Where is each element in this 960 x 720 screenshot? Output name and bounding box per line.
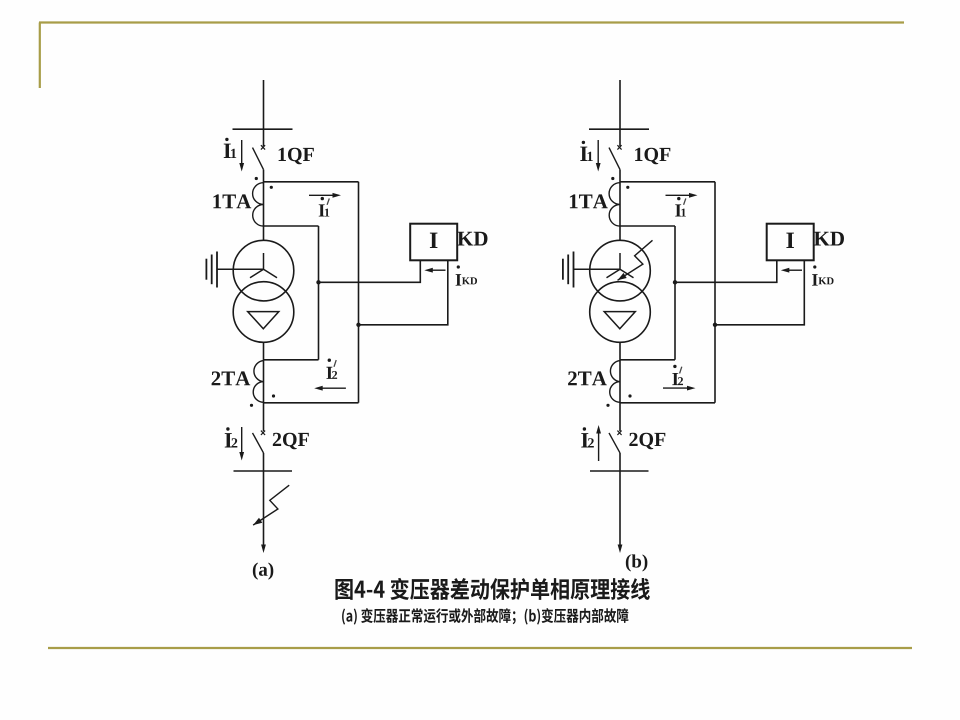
arrow: I2' secondary current (left) circuit (a) [320,387,346,389]
wire: right vertical secondary bus circuit (a) [358,182,360,403]
wire: breaker 2QF to load bus circuit (b) [619,453,621,471]
polarity dot 1TA lower circuit (b) [626,186,629,189]
internal fault lightning bolt inside transformer circuit (b) [618,240,653,280]
CT 2TA winding bumps circuit (a) [253,361,263,403]
breaker 1QF top contact mark circuit (a) [261,145,265,149]
wire: outgoing feeder with direction arrow circuit (b) [619,471,621,547]
wire: incoming feeder line circuit (a) [263,80,265,146]
wire: breaker to transformer circuit (a) [263,170,265,241]
polarity dot 1TA upper circuit (a) [255,177,258,180]
wire: 2TA secondary lower lead circuit (a) [264,402,359,404]
arrow: I1 current direction (down) circuit (b) [597,140,599,166]
slide frame: gold bottom horizontal rule [48,647,912,649]
wye (star) symbol circuit (b) [607,253,634,278]
label I2 load current circuit (b) [581,433,588,447]
polarity dot 2TA lower circuit (a) [250,404,253,407]
polarity dot 1TA lower circuit (a) [270,186,273,189]
wire: 2TA secondary upper lead circuit (b) [620,359,675,361]
caption: 图4-4 变压器差动保护单相原理接线 [335,578,649,600]
label 1QF circuit (a) [279,148,314,164]
node: load bus tick circuit (a) [234,470,293,472]
label KD circuit (b) [814,232,844,246]
wire: neutral to ground circuit (a) [217,268,264,270]
node: source bus tick circuit (a) [233,128,293,130]
arrow: I2 current direction (down) circuit (a) [241,427,243,455]
node: load bus tick circuit (b) [590,470,649,472]
wire: 1TA secondary upper lead circuit (b) [620,181,715,183]
breaker 2QF blade circuit (b) [609,433,620,453]
wire: transformer to 2TA to breaker 2QF circuit (a) [263,342,265,431]
polarity dot 2TA lower circuit (b) [606,404,609,407]
label I1 primary current circuit (a) [224,144,231,158]
label 1TA circuit (a) [213,194,251,208]
breaker 2QF contact mark circuit (b) [617,431,621,435]
CT 2TA winding bumps circuit (b) [610,361,620,403]
external fault lightning bolt circuit (a) [253,485,289,525]
relay KD box circuit (b) [767,224,814,261]
wire: relay left lead circuit (a) [319,260,421,282]
label 1TA circuit (b) [570,194,608,208]
transformer T secondary winding circle circuit (a) [233,282,294,343]
relay KD box circuit (a) [410,224,457,261]
delta symbol circuit (b) [604,312,635,329]
polarity dot 2TA upper circuit (a) [272,394,275,397]
wire: neutral to ground circuit (b) [574,268,621,270]
wire: breaker to transformer circuit (b) [619,170,621,241]
arrow: IKD relay current circuit (b) [787,269,802,271]
delta symbol circuit (a) [248,312,279,329]
arrow: I1' secondary current circuit (b) [666,194,692,196]
wire: outgoing feeder with direction arrow circuit (a) [263,471,265,547]
label I inside relay circuit (b) [786,233,794,248]
ground symbol circuit (b) [573,252,575,288]
junction: right bus to relay circuit (a) [356,323,360,327]
arrow: IKD relay current circuit (a) [430,269,445,271]
label 2QF circuit (b) [629,433,665,449]
wire: transformer to 2TA to breaker 2QF circuit (b) [619,342,621,431]
wire: 1TA secondary inner lead circuit (a) [264,225,319,227]
arrow: I1 current direction (down) circuit (a) [241,140,243,166]
label I2' circuit (b) [672,373,678,385]
breaker 1QF blade circuit (a) [253,148,264,170]
polarity dot 2TA upper circuit (b) [628,394,631,397]
wire: 2TA secondary lower lead circuit (b) [620,402,715,404]
wire: 1TA secondary upper lead circuit (a) [264,181,359,183]
wire: 2TA secondary upper lead circuit (a) [264,359,319,361]
label (b) [626,554,648,571]
wire: breaker 2QF to load bus circuit (a) [263,453,265,471]
wire: 1TA secondary inner lead circuit (b) [620,225,675,227]
arrow: I1' secondary current circuit (a) [309,194,335,196]
label IKD circuit (a) [456,274,462,285]
CT 1TA winding bumps circuit (b) [609,183,620,226]
label (a) [253,563,273,580]
label I2' circuit (a) [326,367,332,379]
label 1QF circuit (b) [635,148,670,164]
slide frame: gold top horizontal rule [39,21,904,23]
transformer T secondary winding circle circuit (b) [590,282,651,343]
label I1 primary current circuit (b) [580,147,587,161]
arrow: I2 current direction (up) circuit (b) [598,431,600,461]
wye (star) symbol circuit (a) [250,253,277,278]
breaker 2QF blade circuit (a) [253,433,264,453]
CT 1TA winding bumps circuit (a) [253,183,264,226]
transformer T primary winding circle circuit (a) [233,240,294,301]
ground symbol circuit (a) [216,252,218,288]
wire: relay left lead circuit (b) [675,260,777,282]
label I inside relay circuit (a) [430,233,438,248]
wire: inner vertical secondary bus circuit (b) [674,226,676,360]
junction: inner bus to relay circuit (a) [316,280,320,284]
label I2 load current circuit (a) [225,433,232,447]
wire: right vertical secondary bus circuit (b) [714,182,716,403]
label I1' circuit (a) [319,204,325,216]
label 2TA circuit (b) [568,371,607,385]
junction: right bus to relay circuit (b) [713,323,717,327]
polarity dot 1TA upper circuit (b) [611,177,614,180]
label I1' circuit (b) [675,204,681,216]
breaker 2QF contact mark circuit (a) [261,431,265,435]
wire: relay right lead circuit (b) [715,260,804,325]
arrow: I2' secondary current (right) circuit (b) [663,387,690,389]
wire: relay right lead circuit (a) [359,260,448,325]
slide frame: gold left vertical rule [39,23,41,89]
breaker 1QF top contact mark circuit (b) [617,145,621,149]
label KD circuit (a) [457,232,487,246]
label 2TA circuit (a) [212,371,251,385]
node: source bus tick circuit (b) [589,128,649,130]
transformer T primary winding circle circuit (b) [590,240,651,301]
breaker 1QF blade circuit (b) [609,148,620,170]
junction: inner bus to relay circuit (b) [673,280,677,284]
label 2QF circuit (a) [273,433,309,449]
subcaption: (a) 变压器正常运行或外部故障 (b) 变压器内部故障 [342,608,628,625]
wire: incoming feeder line circuit (b) [619,80,621,146]
label IKD circuit (b) [812,274,818,285]
wire: inner vertical secondary bus circuit (a) [318,226,320,360]
